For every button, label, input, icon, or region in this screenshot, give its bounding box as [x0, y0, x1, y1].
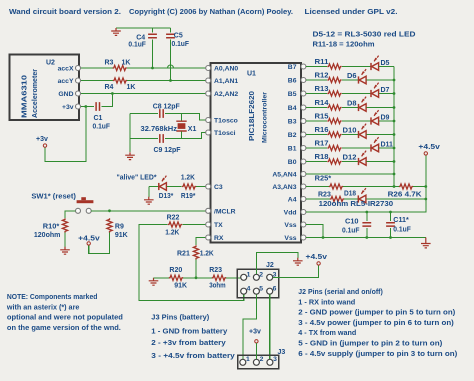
LED D5: [371, 56, 379, 71]
pin Vss: [301, 222, 306, 227]
wire LED anode rail: [393, 67, 395, 187]
wire D6 to rail: [367, 79, 395, 81]
node +4.5v J2: [317, 262, 320, 265]
svg-text:T1osco: T1osco: [214, 118, 238, 125]
svg-text:Vdd: Vdd: [284, 210, 297, 217]
svg-text:R25*: R25*: [315, 175, 332, 182]
svg-text:C9 12pF: C9 12pF: [154, 147, 182, 154]
wire C8 to T1osco: [165, 114, 207, 121]
svg-text:R10*: R10*: [43, 223, 60, 230]
svg-text:Licensed under GPL v2.: Licensed under GPL v2.: [305, 7, 398, 16]
svg-text:6: 6: [273, 285, 277, 292]
wire hop on A0 line: [168, 65, 174, 68]
wire +3v node riser: [45, 107, 86, 162]
wire C11 top: [390, 212, 392, 221]
wire C9 to T1osci: [165, 133, 207, 139]
LED D10: [359, 124, 367, 139]
switch SW1 left contact: [76, 208, 81, 213]
svg-text:1: 1: [246, 356, 250, 363]
pin C3: [206, 184, 211, 189]
svg-text:+4.5v: +4.5v: [78, 236, 100, 243]
wire alive LED ground drop: [148, 187, 150, 197]
wire top bypass rail: [116, 27, 171, 29]
pin B3: [301, 119, 306, 124]
svg-text:J3 Pins (battery): J3 Pins (battery): [151, 315, 209, 322]
wire crystal ground drop: [129, 114, 131, 153]
pin A1,AN1: [206, 78, 211, 83]
resistor R26: [399, 184, 413, 189]
wire RX down: [196, 238, 207, 246]
resistor R10*: [62, 218, 67, 232]
wire D9 to rail: [379, 120, 394, 122]
wire R19 to C3 pin: [196, 186, 207, 188]
svg-text:R3: R3: [105, 60, 114, 67]
svg-text:A0,AN0: A0,AN0: [214, 66, 238, 73]
svg-text:2: 2: [260, 356, 264, 363]
LED D13*: [159, 176, 167, 191]
resistor R23 IR: [330, 196, 344, 201]
svg-text:1.2K: 1.2K: [181, 175, 195, 182]
svg-text:Microcontroller: Microcontroller: [262, 92, 269, 143]
U2 value MMA6310: [20, 75, 29, 118]
svg-text:R13: R13: [315, 86, 329, 93]
wire +3v pin to C1: [81, 106, 94, 108]
pin B2: [301, 132, 306, 137]
svg-text:GND: GND: [58, 91, 73, 98]
wire R17 to D11: [342, 147, 371, 149]
connector J2 pin 4: [241, 288, 247, 294]
LED D12: [359, 151, 367, 166]
svg-text:B3: B3: [288, 119, 297, 126]
svg-text:with an asterix (*) are: with an asterix (*) are: [6, 304, 80, 311]
wire C1 to GND row: [101, 94, 112, 107]
wire R23 to J2 pin 1: [226, 277, 240, 279]
pin A4: [301, 197, 306, 202]
svg-text:A5,AN4: A5,AN4: [272, 172, 296, 179]
svg-text:B1: B1: [288, 146, 297, 153]
pin Vss: [301, 235, 306, 240]
node +4.5v pullup: [87, 242, 90, 245]
wire D12 to rail: [367, 161, 395, 163]
wire accX to R3: [81, 67, 113, 69]
wire R23 to D18: [344, 198, 358, 200]
wire accY to R4: [81, 80, 113, 82]
svg-text:R18: R18: [315, 154, 329, 161]
ground Vss: [421, 238, 431, 248]
svg-text:0.1uF: 0.1uF: [128, 42, 146, 49]
svg-text:Accelerometer: Accelerometer: [32, 69, 39, 118]
wire D10 to rail: [367, 134, 395, 136]
wire R4 to A1,AN1: [127, 80, 207, 82]
svg-text:0.1uF: 0.1uF: [393, 226, 411, 233]
wire Vdd to +4.5v: [306, 155, 426, 212]
svg-text:X1: X1: [188, 126, 197, 133]
pin B6: [301, 78, 306, 83]
wire R18 to D12: [342, 161, 359, 163]
svg-text:5: 5: [259, 285, 263, 292]
svg-text:A2,AN2: A2,AN2: [214, 91, 238, 98]
U1 value PIC18LF2620: [247, 91, 256, 141]
svg-text:1 - RX into wand: 1 - RX into wand: [298, 299, 355, 306]
pin RX: [206, 235, 211, 240]
svg-text:R23: R23: [318, 191, 331, 198]
wire J2 pin6 to J3 pin3: [269, 294, 271, 359]
wire D7 to rail: [379, 93, 394, 95]
wire R20 to R23: [183, 277, 212, 279]
svg-text:R19*: R19*: [181, 193, 196, 200]
resistor R4: [113, 78, 127, 83]
wire D11 to rail: [379, 147, 394, 149]
svg-text:1 - GND from battery: 1 - GND from battery: [151, 328, 227, 335]
svg-text:4 - TX from wand: 4 - TX from wand: [298, 330, 356, 337]
LED D6: [359, 69, 367, 84]
resistor R14: [327, 105, 341, 110]
svg-text:J2 Pins (serial and on/off): J2 Pins (serial and on/off): [298, 289, 383, 296]
resistor R9: [107, 218, 112, 232]
capacitor C10: [362, 223, 371, 226]
wire R14 to D8: [342, 107, 359, 109]
svg-text:Copyright (C) 2006 by Nathan (: Copyright (C) 2006 by Nathan (Acorn) Poo…: [129, 7, 293, 16]
pin +3v: [76, 104, 81, 109]
svg-text:1: 1: [247, 271, 251, 278]
wire C10 bottom: [366, 228, 368, 238]
ground R10: [60, 247, 70, 254]
svg-text:Vss: Vss: [284, 235, 296, 242]
wire C11 bottom: [390, 228, 392, 238]
svg-text:R4: R4: [105, 84, 114, 91]
connector J3 pin 1: [240, 359, 246, 365]
svg-text:accX: accX: [58, 66, 74, 73]
svg-text:D9: D9: [381, 114, 390, 121]
svg-text:1K: 1K: [127, 84, 136, 91]
svg-text:C8 12pF: C8 12pF: [153, 103, 181, 110]
LED D8: [359, 97, 367, 112]
svg-text:R17: R17: [315, 140, 329, 147]
pin B1: [301, 146, 306, 151]
svg-text:B6: B6: [288, 78, 297, 85]
wire R10 to ground: [64, 233, 66, 247]
wire C4 top stem: [152, 28, 154, 33]
svg-text:PIC18LF2620: PIC18LF2620: [247, 91, 256, 141]
wire D18 to +4.5v column: [366, 198, 426, 200]
op-amp U1 microcontroller box: [211, 63, 302, 243]
connector J2 pin 5: [253, 288, 259, 294]
svg-text:C3: C3: [214, 184, 223, 191]
pin B0: [301, 159, 306, 164]
svg-text:optional and were not populate: optional and were not populated: [7, 315, 123, 322]
svg-text:R14: R14: [315, 100, 329, 107]
wire R11 left: [306, 66, 327, 68]
LED D18 infrared: [358, 188, 366, 203]
wire /MCLR line: [91, 210, 207, 212]
wire R17 left: [306, 147, 327, 149]
wire rail to R26: [394, 186, 399, 188]
resistor R13: [327, 91, 341, 96]
resistor R22: [168, 222, 182, 227]
svg-text:5 - GND in (jumper to pin 2 to: 5 - GND in (jumper to pin 2 to turn on): [298, 341, 442, 348]
pin A2,AN2: [206, 91, 211, 96]
svg-text:NOTE: Components marked: NOTE: Components marked: [7, 294, 98, 301]
svg-text:0.1uF: 0.1uF: [93, 123, 111, 130]
svg-text:B5: B5: [288, 91, 297, 98]
pin A0,AN0: [206, 66, 211, 71]
svg-text:RX: RX: [214, 235, 224, 242]
resistor R16: [327, 132, 341, 137]
svg-text:32.768kHz: 32.768kHz: [141, 126, 178, 133]
wire crystal bottom stem: [181, 132, 183, 139]
wire R12 to D6: [342, 79, 359, 81]
node +4.5v main: [424, 152, 427, 155]
svg-text:+4.5v: +4.5v: [306, 254, 328, 261]
svg-text:C10: C10: [345, 218, 359, 225]
svg-text:R12: R12: [315, 72, 329, 79]
svg-text:C5: C5: [174, 32, 183, 39]
svg-text:D5: D5: [381, 60, 390, 67]
svg-text:"alive" LED*: "alive" LED*: [117, 175, 157, 182]
resistor R21: [193, 245, 198, 259]
svg-text:R21: R21: [177, 250, 190, 257]
wire alive gnd to D13: [149, 186, 159, 188]
pin B5: [301, 91, 306, 96]
svg-text:R9: R9: [115, 223, 124, 230]
wire R15 to D9: [342, 120, 371, 122]
pin B4: [301, 105, 306, 110]
pin accX: [76, 66, 81, 71]
svg-text:R15: R15: [315, 113, 329, 120]
connector J3 box: [238, 355, 279, 369]
svg-text:4: 4: [247, 285, 251, 292]
wire C5 bottom stem: [170, 39, 172, 80]
svg-text:D6: D6: [347, 73, 357, 80]
svg-text:D5-12 = RL3-5030 red LED: D5-12 = RL3-5030 red LED: [313, 30, 416, 39]
svg-text:B2: B2: [288, 132, 297, 139]
wire C10 top: [366, 212, 368, 221]
wire C9 left: [130, 138, 158, 140]
wire C5 top stem: [170, 28, 172, 33]
wire C4 bottom stem: [152, 39, 154, 68]
wire R14 left: [306, 107, 327, 109]
switch SW1 right contact: [86, 208, 91, 213]
svg-text:0.1uF: 0.1uF: [172, 41, 190, 48]
svg-text:2: 2: [259, 271, 263, 278]
svg-text:accY: accY: [58, 78, 74, 85]
wire J2 pin2 to ground: [256, 253, 297, 275]
resistor R25*: [329, 184, 343, 189]
crystal X1: [176, 121, 186, 131]
pin T1osci: [206, 130, 211, 135]
capacitor C8: [160, 109, 163, 118]
svg-text:on the game version of the wnd: on the game version of the wnd.: [7, 325, 121, 332]
svg-text:B7: B7: [288, 64, 297, 71]
pin A5,AN4: [301, 172, 306, 177]
svg-text:A4: A4: [288, 197, 297, 204]
wire GND row to A2,AN2: [81, 93, 207, 95]
pin A3,AN3: [301, 184, 306, 189]
svg-text:1.2K: 1.2K: [200, 250, 214, 257]
wire SW1 to R10: [65, 211, 76, 218]
wire TX to J2 pin 4: [139, 225, 244, 301]
ground J2: [293, 258, 303, 265]
svg-text:+3v: +3v: [62, 104, 74, 111]
switch SW1 actuator: [77, 197, 94, 203]
connector J2 pin 1: [241, 274, 247, 280]
wire R26 to +4.5v column: [413, 186, 426, 188]
wire R11 to D5: [342, 66, 371, 68]
wire C8 left: [130, 113, 158, 115]
wire R25 to rail: [343, 186, 394, 188]
svg-text:D13*: D13*: [159, 193, 174, 200]
svg-text:Wand circuit board version 2.: Wand circuit board version 2.: [9, 7, 121, 16]
svg-text:3 - +4.5v from battery: 3 - +4.5v from battery: [151, 353, 235, 360]
svg-text:3: 3: [273, 356, 277, 363]
svg-text:C4: C4: [136, 35, 145, 42]
wire +3v to J3 pin2: [255, 343, 257, 359]
resistor R18: [327, 159, 341, 164]
LED D11: [371, 137, 379, 152]
wire crystal top stem: [181, 114, 183, 121]
wire R9 to +4.5v: [89, 233, 110, 254]
connector J2 pin 3: [267, 274, 273, 280]
svg-text:SW1* (reset): SW1* (reset): [31, 193, 76, 200]
wire R13 left: [306, 93, 327, 95]
resistor R12: [327, 77, 341, 82]
svg-text:D18: D18: [344, 190, 356, 197]
pin accY: [76, 78, 81, 83]
resistor R11: [327, 64, 341, 69]
svg-text:R11: R11: [315, 59, 329, 66]
svg-text:T1osci: T1osci: [214, 130, 236, 137]
pin TX: [206, 222, 211, 227]
svg-text:/MCLR: /MCLR: [214, 208, 236, 215]
wire R3 to A0,AN0: [127, 67, 207, 69]
accelerometer U2 box: [10, 55, 80, 121]
svg-text:R11-18 = 120ohm: R11-18 = 120ohm: [313, 39, 375, 48]
svg-text:+3v: +3v: [36, 136, 48, 143]
wire A3 to R25: [306, 186, 329, 188]
wire R21 to bottom rail: [195, 260, 197, 278]
pin Vdd: [301, 210, 306, 215]
svg-text:D11: D11: [381, 141, 394, 148]
svg-text:U2: U2: [46, 60, 55, 67]
wire D5 to rail: [379, 66, 394, 68]
svg-text:91K: 91K: [174, 282, 187, 289]
LED D7: [371, 83, 379, 98]
svg-text:0.1uF: 0.1uF: [342, 227, 360, 234]
svg-text:R16: R16: [315, 127, 329, 134]
connector J2 pin 6: [267, 288, 273, 294]
resistor R17: [327, 145, 341, 150]
svg-text:TX: TX: [214, 222, 223, 229]
svg-text:D8: D8: [347, 100, 357, 107]
svg-text:D12: D12: [343, 154, 357, 161]
svg-text:J2: J2: [266, 262, 274, 269]
svg-text:+4.5v: +4.5v: [418, 144, 440, 151]
wire R15 left: [306, 120, 327, 122]
svg-text:R20: R20: [169, 267, 182, 274]
connector J2 pin 2: [253, 274, 259, 280]
wire Vss2 row: [306, 237, 426, 239]
svg-text:A1,AN1: A1,AN1: [214, 78, 238, 85]
svg-text:Vss: Vss: [284, 222, 296, 229]
wire R16 to D10: [342, 134, 359, 136]
wire TX right: [182, 224, 207, 226]
svg-text:120ohm RL5-IR2730: 120ohm RL5-IR2730: [319, 201, 394, 208]
svg-text:B0: B0: [288, 159, 297, 166]
LED D9: [371, 110, 379, 125]
svg-text:R23: R23: [209, 267, 222, 274]
svg-text:C11*: C11*: [393, 217, 409, 224]
svg-text:2 - +3v from battery: 2 - +3v from battery: [151, 340, 226, 347]
capacitor C1: [96, 102, 99, 111]
svg-text:U1: U1: [247, 71, 256, 78]
capacitor C5: [166, 34, 175, 37]
wire A5,AN4 to rail: [306, 173, 394, 175]
resistor R19*: [182, 184, 196, 189]
svg-text:91K: 91K: [115, 232, 128, 239]
connector J2 box: [237, 269, 279, 298]
resistor R15: [327, 118, 341, 123]
svg-text:6 - 4.5v supply (jumper to pin: 6 - 4.5v supply (jumper to pin 3 to turn…: [298, 351, 457, 358]
wire D8 to rail: [367, 107, 395, 109]
wire R16 left: [306, 134, 327, 136]
capacitor C4: [148, 34, 157, 37]
connector J3 pin 2: [253, 359, 259, 365]
svg-text:D10: D10: [343, 127, 357, 134]
pin B7: [301, 64, 306, 69]
svg-text:3 - 4.5v power (jumper to pin: 3 - 4.5v power (jumper to pin 6 to turn …: [298, 320, 454, 327]
svg-text:C1: C1: [94, 115, 103, 122]
ground alive LED: [144, 197, 154, 204]
wire A4 to R23: [306, 198, 330, 200]
svg-text:120ohm: 120ohm: [34, 232, 61, 239]
node +3v supply: [43, 144, 46, 147]
resistor R23: [212, 275, 226, 280]
connector J3 pin 3: [267, 359, 273, 365]
wire R12 left: [306, 79, 327, 81]
pin GND: [76, 91, 81, 96]
svg-text:MMA6310: MMA6310: [20, 75, 29, 118]
resistor R20: [169, 275, 183, 280]
svg-text:+3v: +3v: [249, 329, 261, 336]
wire J2 pin3 to +4.5v: [273, 265, 319, 277]
resistor R3: [113, 65, 127, 70]
capacitor C11*: [386, 223, 395, 226]
svg-text:R22: R22: [167, 215, 180, 222]
svg-text:2 - GND power (jumper to pin 5: 2 - GND power (jumper to pin 5 to turn o…: [298, 310, 455, 317]
capacitor C9: [160, 134, 163, 143]
wire R13 to D7: [342, 93, 371, 95]
ground top rail: [111, 28, 121, 35]
svg-text:1K: 1K: [122, 60, 131, 67]
svg-text:D7: D7: [381, 87, 390, 94]
svg-text:1.2K: 1.2K: [165, 230, 179, 237]
ground bottom rail: [149, 278, 159, 285]
pin T1osco: [206, 118, 211, 123]
wire R18 left: [306, 161, 327, 163]
ground crystal: [125, 152, 135, 159]
wire ground to R20: [154, 277, 170, 279]
wire D13 to R19: [167, 186, 182, 188]
svg-text:A3,AN3: A3,AN3: [272, 184, 296, 191]
wire Vss1 jog: [306, 225, 323, 238]
svg-text:R26 4.7K: R26 4.7K: [388, 191, 422, 198]
wire J2 pin5 to J3 pin1: [243, 294, 257, 359]
svg-text:B4: B4: [288, 105, 297, 112]
node +3v battery: [255, 340, 258, 343]
svg-text:J3: J3: [278, 349, 286, 356]
svg-text:3ohm: 3ohm: [209, 282, 226, 289]
pin /MCLR: [206, 208, 211, 213]
